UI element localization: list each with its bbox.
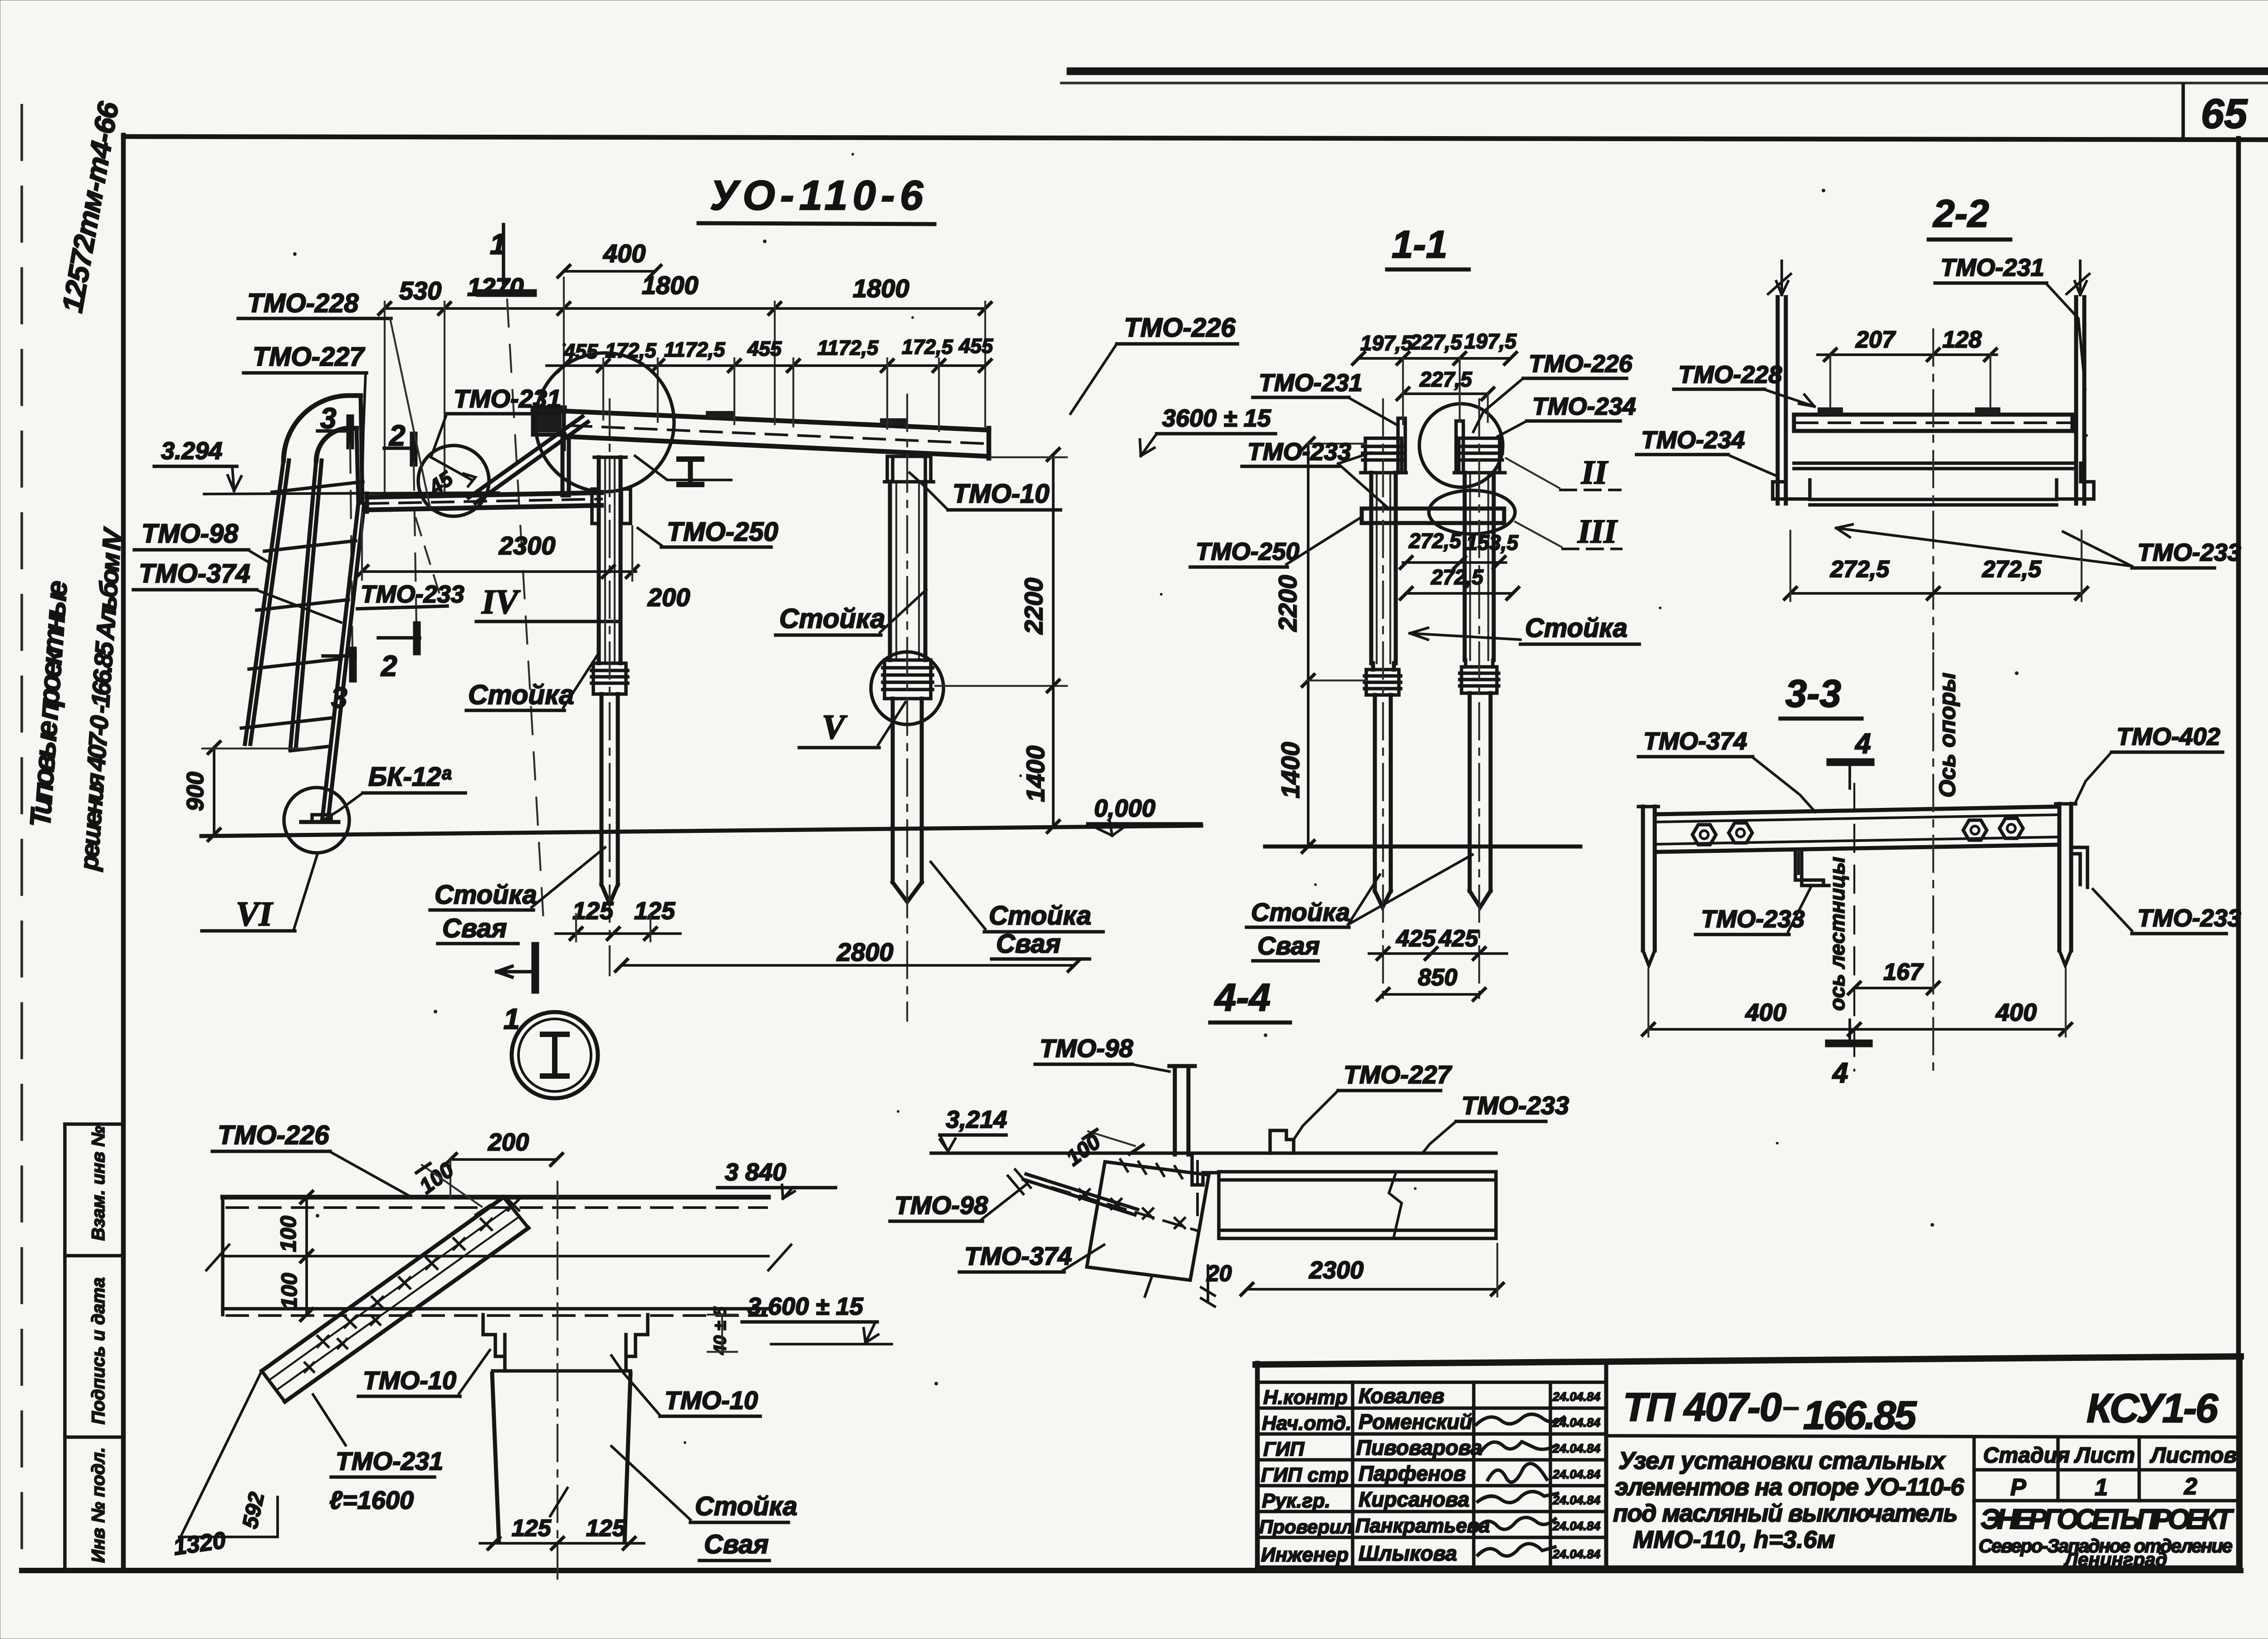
2-2 centre axis: [1932, 329, 1934, 649]
svg-text:197,5: 197,5: [1464, 329, 1517, 353]
svg-text:Стадия: Стадия: [1983, 1443, 2070, 1468]
ladder handrail inner arc: [316, 428, 357, 460]
svg-text:ТМО-231: ТМО-231: [454, 384, 561, 413]
svg-text:425: 425: [1396, 925, 1436, 952]
svg-text:65: 65: [2201, 91, 2248, 137]
1-1 centerlines: [1382, 399, 1384, 998]
ground line: [201, 826, 1201, 836]
2-2 mid member: [1794, 463, 2072, 469]
svg-text:1: 1: [2095, 1474, 2108, 1501]
drawing frame right border: [2236, 138, 2241, 1571]
svg-text:100: 100: [278, 1273, 302, 1309]
ladder foot block БК-12: [301, 820, 338, 824]
1-1 connection plate right: [1456, 421, 1463, 470]
svg-text:VI: VI: [236, 895, 274, 933]
svg-text:207: 207: [1855, 327, 1896, 353]
svg-text:3600 ± 15: 3600 ± 15: [1162, 405, 1271, 432]
svg-text:3.600 ± 15: 3.600 ± 15: [748, 1293, 864, 1320]
section cut mark 2 (bottom): [378, 636, 420, 640]
detail circle II: [1419, 404, 1503, 487]
1-1 ground line: [1265, 845, 1580, 849]
I glyph: [552, 1034, 557, 1076]
svg-text:4-4: 4-4: [1214, 976, 1271, 1019]
svg-text:1-1: 1-1: [1392, 223, 1447, 266]
svg-text:ТМО-233: ТМО-233: [361, 581, 464, 608]
svg-text:2200: 2200: [1019, 577, 1048, 635]
svg-text:2200: 2200: [1273, 575, 1302, 632]
1-1 dim 2200/1400: [1307, 444, 1310, 846]
svg-text:V: V: [822, 708, 847, 746]
svg-text:24.04.84: 24.04.84: [1552, 1442, 1600, 1455]
svg-text:ТМО-234: ТМО-234: [1641, 426, 1745, 454]
svg-text:12572тм-т4-66: 12572тм-т4-66: [56, 99, 125, 315]
svg-text:125: 125: [572, 897, 614, 925]
ladder axis dash line: [1853, 784, 1855, 1071]
strip weld marks: [318, 1199, 519, 1347]
ladder handrail outer arc: [283, 396, 361, 460]
plate weld ticks top edge: [1120, 1160, 1182, 1178]
svg-text:425: 425: [1438, 925, 1479, 952]
svg-text:1400: 1400: [1276, 742, 1305, 798]
svg-text:3,214: 3,214: [946, 1106, 1007, 1133]
margin stamp boxes column: [63, 1124, 67, 1569]
strut clamp plates on column ТМО-250 joint: [592, 489, 631, 524]
svg-text:400: 400: [1995, 999, 2037, 1026]
svg-text:Инв № подл.: Инв № подл.: [88, 1447, 108, 1563]
svg-text:100: 100: [1062, 1130, 1105, 1171]
section cut mark 1 (bottom): [532, 946, 539, 990]
svg-text:Свая: Свая: [442, 914, 507, 943]
drawing frame bottom border: [22, 1568, 2241, 1573]
3-3 beam flanges: [1655, 807, 2059, 852]
стадия-лист table: [1972, 1437, 1976, 1569]
3-3 right clip: [2071, 847, 2087, 887]
2-2 left Z-clip: [1773, 463, 1810, 499]
svg-text:Роменский: Роменский: [1359, 1410, 1472, 1434]
svg-text:УО-110-6: УО-110-6: [710, 172, 924, 219]
svg-text:Стойка: Стойка: [989, 901, 1091, 930]
svg-text:1320: 1320: [172, 1527, 228, 1561]
svg-text:КСУ1-6: КСУ1-6: [2087, 1386, 2219, 1431]
svg-text:ТМО-226: ТМО-226: [1529, 350, 1633, 377]
2-2 top tabs: [1818, 407, 1843, 415]
svg-text:455: 455: [958, 334, 993, 357]
top thin sub-line: [1061, 82, 2268, 84]
view I beam top chord: [223, 1195, 768, 1200]
svg-text:167: 167: [1883, 959, 1924, 985]
right column pile: [893, 699, 922, 902]
detail circle I header: [512, 1012, 598, 1098]
svg-text:ТМО-226: ТМО-226: [218, 1120, 329, 1150]
4-4 beam break zigzag: [1389, 1172, 1402, 1238]
view I beam mid line with break arrows: [223, 1255, 768, 1257]
diagonal strip ТМО-231: [262, 1197, 528, 1402]
svg-text:Свая: Свая: [996, 929, 1061, 959]
ladder middle stringer: [290, 460, 322, 749]
dim 900: [213, 748, 215, 835]
drawing frame left border: [121, 135, 126, 1571]
2-2 left post: [1778, 297, 1786, 504]
1-1 right collar channels: [1454, 438, 1505, 473]
plate ТМО-374 (parallelogram): [1087, 1162, 1209, 1280]
svg-text:ТМО-374: ТМО-374: [139, 559, 250, 588]
left column (стойка) shell: [599, 457, 621, 663]
svg-text:ЭНЕРГОСЕТЬПРОЕКТ: ЭНЕРГОСЕТЬПРОЕКТ: [1980, 1504, 2234, 1535]
svg-text:ТМО-228: ТМО-228: [247, 289, 359, 318]
drawing frame top border: [123, 137, 2268, 140]
2-2 top member: [1794, 415, 2072, 431]
diagonal brace ТМО-231: [469, 416, 588, 503]
ladder rungs: [241, 482, 363, 751]
svg-text:24.04.84: 24.04.84: [1552, 1416, 1600, 1429]
dim row1 ticks: [379, 303, 991, 314]
svg-text:272,5: 272,5: [1408, 529, 1462, 553]
svg-text:ТМО-10: ТМО-10: [665, 1386, 758, 1414]
section cut line 1-1: [507, 299, 543, 919]
svg-text:Проверил: Проверил: [1259, 1516, 1353, 1537]
plate diagonal dashed line with welds: [1052, 1188, 1198, 1231]
svg-text:ТМО-231: ТМО-231: [336, 1447, 443, 1475]
svg-text:ТМО-233: ТМО-233: [2137, 905, 2241, 932]
3-3 bolts left pair: [1692, 823, 1752, 845]
traverse beam top chord: [533, 410, 989, 430]
svg-text:530: 530: [399, 276, 441, 305]
svg-text:ТМО-234: ТМО-234: [1532, 393, 1636, 420]
ТМО-10 bracket at right column top: [885, 456, 934, 482]
svg-text:Свая: Свая: [1257, 931, 1320, 960]
svg-text:227,5: 227,5: [1419, 367, 1473, 391]
svg-text:455: 455: [563, 340, 598, 363]
signature squiggle Пивоварова: [1481, 1442, 1556, 1452]
ladder left stringer: [245, 460, 289, 744]
right column centerline: [906, 395, 908, 1021]
svg-text:40 ± 5: 40 ± 5: [711, 1306, 730, 1355]
svg-text:Стойка: Стойка: [695, 1492, 797, 1521]
svg-text:592: 592: [238, 1490, 269, 1531]
svg-text:125: 125: [586, 1515, 626, 1541]
svg-text:2800: 2800: [836, 938, 894, 966]
svg-text:Р: Р: [2010, 1474, 2026, 1501]
svg-text:ТМО-233: ТМО-233: [2137, 539, 2241, 566]
2-2 left post break arrow: [1768, 261, 1791, 295]
svg-text:1400: 1400: [1021, 745, 1050, 802]
svg-text:ТМО-250: ТМО-250: [667, 517, 778, 547]
view I pile body: [492, 1374, 631, 1542]
3-3 mid clip ТМО-233: [1795, 852, 1829, 886]
svg-text:Подпись и дата: Подпись и дата: [88, 1277, 108, 1424]
svg-text:400: 400: [1745, 999, 1786, 1026]
svg-text:272,5: 272,5: [1830, 556, 1890, 582]
svg-text:Взам. инв №: Взам. инв №: [88, 1126, 108, 1241]
view I beam left end: [221, 1197, 225, 1315]
svg-text:ТМО-227: ТМО-227: [253, 342, 365, 372]
svg-text:ТМО-98: ТМО-98: [894, 1191, 988, 1219]
dim row1 extension lines: [385, 278, 985, 497]
svg-text:Лист: Лист: [2074, 1443, 2135, 1468]
slope triangle 1320/592: [179, 1497, 278, 1537]
top thick border line: [1070, 68, 2268, 75]
45 degree detail circle: [418, 445, 489, 516]
svg-text:ТМО-10: ТМО-10: [363, 1366, 456, 1394]
svg-text:Шлыкова: Шлыкова: [1359, 1541, 1457, 1565]
2-2 right post break arrow: [2067, 261, 2089, 295]
right column (стойка) shell: [890, 482, 925, 660]
svg-text:Стойка: Стойка: [468, 680, 574, 710]
svg-text:Ленинград: Ленинград: [2063, 1549, 2167, 1570]
svg-text:Ковалев: Ковалев: [1359, 1384, 1444, 1408]
svg-text:200: 200: [488, 1129, 529, 1156]
svg-text:ГИП: ГИП: [1263, 1438, 1305, 1460]
4-4 channel beam: [1219, 1172, 1496, 1238]
1-1 left column: [1371, 473, 1396, 663]
svg-text:Рук.гр.: Рук.гр.: [1262, 1490, 1330, 1512]
left column top cap: [594, 455, 626, 459]
svg-text:решения 407-0 -166.85 Альб: решения 407-0 -166.85 Альбом IV: [74, 526, 127, 872]
scattered scan speckles: [763, 240, 767, 243]
svg-text:ТМО-227: ТМО-227: [1344, 1060, 1452, 1089]
svg-text:172,5: 172,5: [902, 335, 953, 358]
svg-text:125: 125: [512, 1515, 552, 1541]
svg-text:3-3: 3-3: [1785, 672, 1841, 715]
view I beam bottom chord: [223, 1307, 768, 1311]
svg-text:400: 400: [603, 239, 645, 268]
dim 2200/1400 vertical line: [1052, 455, 1055, 827]
detail ellipse III: [1429, 490, 1515, 534]
4-4 vertical post: [1175, 1066, 1188, 1155]
svg-text:II: II: [1581, 454, 1608, 491]
svg-text:ТМО-231: ТМО-231: [1941, 254, 2044, 281]
detail circle VI at ladder foot: [284, 788, 349, 853]
svg-text:ГИП стр: ГИП стр: [1261, 1464, 1349, 1486]
diagonal rod ТМО-98 (4-4): [1023, 1174, 1138, 1215]
svg-text:2: 2: [381, 650, 397, 682]
svg-text:Парфенов: Парфенов: [1359, 1462, 1466, 1485]
dim row2 line (455/172.5/1172.5/...): [547, 364, 985, 367]
svg-text:850: 850: [1418, 964, 1457, 991]
dim row1 line (530/1270/1800/1800): [385, 307, 985, 310]
strut ТМО-233 (horizontal member to column): [367, 493, 601, 510]
svg-text:Стойка: Стойка: [1525, 613, 1628, 643]
1-1 left collar channels: [1361, 438, 1406, 473]
right column coupling (detail V): [883, 660, 933, 699]
svg-text:3 840: 3 840: [725, 1159, 786, 1186]
svg-text:24.04.84: 24.04.84: [1552, 1468, 1600, 1481]
left column centerline: [609, 399, 611, 975]
beam right end: [987, 428, 992, 458]
svg-text:ТМО-10: ТМО-10: [953, 479, 1049, 509]
strip tail line to slope triangle: [181, 1371, 262, 1537]
view I pile centerline: [557, 1182, 558, 1579]
dim row2 extension lines: [603, 358, 939, 431]
svg-text:125: 125: [634, 897, 675, 925]
1-1 connection plate left: [1398, 418, 1405, 473]
svg-text:ТМО-231: ТМО-231: [1259, 369, 1363, 396]
svg-text:24.04.84: 24.04.84: [1552, 1390, 1600, 1404]
svg-text:Свая: Свая: [704, 1530, 769, 1559]
signature squiggle Шлыкова: [1478, 1544, 1555, 1556]
signature squiggle Кирсанова: [1478, 1492, 1558, 1502]
svg-text:Панкратьева: Панкратьева: [1355, 1515, 1490, 1537]
svg-text:ММО-110, h=3.6м: ММО-110, h=3.6м: [1633, 1526, 1835, 1553]
traverse beam dashed centerline: [538, 424, 987, 444]
3-3 bolts right pair: [1963, 818, 2023, 840]
svg-text:Типовые проектные: Типовые проектные: [24, 579, 73, 828]
svg-text:элементов на опоре УО-110-6: элементов на опоре УО-110-6: [1615, 1473, 1965, 1501]
title block left border: [1255, 1363, 1260, 1569]
handrail post: [357, 396, 362, 503]
svg-text:Узел установки стальных: Узел установки стальных: [1618, 1447, 1946, 1474]
section cut mark 4 (bottom): [1829, 1040, 1869, 1047]
detail circle V: [871, 652, 943, 724]
plate break mark bottom: [1145, 1276, 1152, 1297]
signature squiggle Панкратьева: [1476, 1517, 1555, 1529]
svg-text:166.85: 166.85: [1803, 1393, 1917, 1438]
title block top thick border: [1256, 1356, 2241, 1365]
1-1 piles with couplings: [1373, 663, 1394, 670]
centerline break mark: [550, 1488, 567, 1516]
svg-text:Стойка: Стойка: [1251, 898, 1350, 926]
svg-text:ТМО-374: ТМО-374: [964, 1242, 1072, 1270]
svg-text:200: 200: [647, 583, 690, 612]
signature squiggle Парфенов: [1488, 1463, 1547, 1482]
beam left end plate ТМО-228: [533, 407, 565, 449]
3-3 left end plate: [1643, 807, 1655, 950]
svg-text:ТМО-226: ТМО-226: [1124, 313, 1236, 342]
svg-text:0,000: 0,000: [1094, 795, 1155, 822]
svg-text:ТМО-228: ТМО-228: [1678, 361, 1782, 388]
svg-text:153,5: 153,5: [1466, 531, 1519, 554]
svg-text:ℓ=1600: ℓ=1600: [329, 1486, 414, 1514]
svg-text:24.04.84: 24.04.84: [1552, 1547, 1600, 1561]
coupling extension line to dim: [935, 685, 1067, 687]
1-1 right column: [1465, 473, 1494, 660]
2-2 bottom shelf: [1810, 480, 2057, 505]
bent plate ТМО-402 joint: [1192, 1155, 1219, 1185]
svg-text:24.04.84: 24.04.84: [1552, 1519, 1600, 1533]
svg-text:3.294: 3.294: [161, 437, 222, 465]
svg-text:Инженер: Инженер: [1261, 1544, 1349, 1566]
svg-text:2-2: 2-2: [1932, 192, 1989, 235]
dim row2 ticks: [558, 360, 991, 372]
svg-text:128: 128: [1942, 327, 1982, 353]
svg-text:1172,5: 1172,5: [664, 338, 725, 361]
svg-text:900: 900: [182, 772, 209, 811]
svg-text:Стойка: Стойка: [779, 603, 885, 634]
svg-text:ТМО-233: ТМО-233: [1461, 1091, 1569, 1120]
svg-text:Пивоварова: Пивоварова: [1356, 1436, 1482, 1459]
svg-text:4: 4: [1832, 1057, 1848, 1089]
svg-text:ТП 407-0: ТП 407-0: [1623, 1385, 1782, 1429]
svg-text:Ось опоры: Ось опоры: [1935, 673, 1960, 797]
svg-text:197,5: 197,5: [1360, 331, 1413, 355]
svg-text:24.04.84: 24.04.84: [1552, 1493, 1600, 1507]
svg-text:Стойка: Стойка: [435, 880, 537, 910]
svg-text:ТМО-98: ТМО-98: [1040, 1034, 1134, 1062]
dims 100/100 (view I left): [305, 1197, 308, 1315]
2-2 right post: [2076, 297, 2084, 504]
1-1 batten plate: [1362, 509, 1504, 523]
svg-text:1172,5: 1172,5: [817, 336, 879, 359]
svg-text:ТМО-402: ТМО-402: [2116, 723, 2220, 750]
svg-text:272,5: 272,5: [1982, 556, 2042, 582]
svg-text:Кирсанова: Кирсанова: [1359, 1487, 1469, 1511]
svg-text:БК-12ᵃ: БК-12ᵃ: [368, 762, 452, 792]
3-3 right end plate: [2059, 804, 2071, 950]
description separator line: [1606, 1436, 2240, 1437]
svg-text:Нач.отд.: Нач.отд.: [1262, 1412, 1351, 1434]
title block bottom border: [1257, 1566, 2240, 1571]
svg-text:ТМО-98: ТМО-98: [142, 519, 239, 548]
section cut line 3-3: [350, 445, 352, 650]
section cut line 2-2: [414, 463, 416, 625]
svg-text:ТМО-374: ТМО-374: [1643, 728, 1747, 755]
ladder right stringer: [322, 504, 364, 821]
svg-text:2300: 2300: [1309, 1257, 1364, 1284]
svg-text:ТМО-233: ТМО-233: [1247, 438, 1351, 465]
beam top tab left: [706, 411, 734, 418]
signature table verticals: [1351, 1382, 1354, 1569]
1-1 top dims 197.5/227.5/197.5: [1359, 357, 1510, 360]
dim 400: [564, 270, 655, 273]
svg-text:227,5: 227,5: [1409, 330, 1463, 354]
section cut mark 3 (bottom): [323, 654, 355, 658]
svg-text:Листов: Листов: [2150, 1443, 2237, 1468]
ТМО-227 hook element: [1270, 1130, 1294, 1153]
outer left page edge: [20, 105, 23, 1571]
svg-text:20: 20: [1206, 1261, 1232, 1286]
traverse beam bottom chord: [564, 436, 989, 456]
callout I leader: [635, 456, 731, 480]
detail circle I (beam-column joint): [535, 353, 674, 492]
svg-text:ось лестницы: ось лестницы: [1825, 857, 1849, 1011]
svg-text:455: 455: [747, 337, 782, 360]
опора axis continuation: [1932, 653, 1934, 1071]
svg-text:IV: IV: [481, 583, 521, 621]
title block right border: [2237, 1356, 2243, 1569]
svg-text:Н.контр: Н.контр: [1263, 1386, 1348, 1409]
2-2 right Z-clip: [2057, 463, 2094, 499]
callout I symbol: [688, 459, 693, 484]
svg-text:2: 2: [2184, 1473, 2197, 1500]
svg-text:2300: 2300: [499, 531, 556, 560]
left column coupling: [591, 663, 628, 694]
svg-text:4: 4: [1854, 728, 1871, 759]
view I pile cap clips ТМО-10: [483, 1315, 648, 1371]
svg-text:272,5: 272,5: [1431, 565, 1484, 589]
left column pile: [601, 694, 618, 904]
svg-text:под масляный выключатель: под масляный выключатель: [1613, 1500, 1958, 1527]
svg-text:III: III: [1577, 513, 1618, 550]
page number box 65: [2181, 84, 2185, 139]
svg-text:1800: 1800: [853, 274, 909, 303]
4-4 top line / level line: [931, 1151, 1496, 1155]
svg-text:1270: 1270: [467, 273, 524, 301]
signature squiggle Роменский: [1476, 1414, 1564, 1424]
beam top tab right: [880, 418, 908, 426]
signature table row lines: [1257, 1380, 1606, 1384]
svg-text:ТМО-250: ТМО-250: [1196, 538, 1300, 565]
svg-text:100: 100: [277, 1216, 301, 1252]
